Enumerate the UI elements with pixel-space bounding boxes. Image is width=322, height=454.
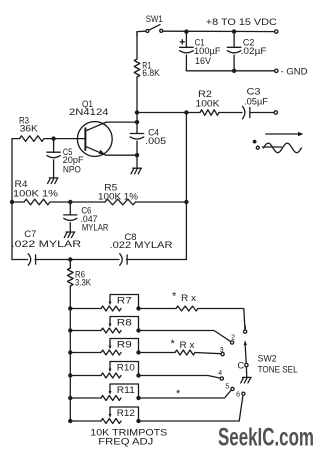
svg-text:2N4124: 2N4124 [69, 106, 109, 117]
terminal: V+ input [275, 30, 278, 33]
svg-text:3: 3 [220, 347, 224, 354]
svg-text:.02µF: .02µF [241, 45, 267, 56]
wire: right trunk (R2 to C8) [185, 113, 187, 260]
svg-text:C7: C7 [24, 228, 36, 239]
resistor R2 100K [186, 88, 242, 115]
trimpot R11 10K [68, 384, 141, 401]
node: R4/R5/C6 [68, 200, 72, 204]
label 10K TRIMPOTS FREQ ADJ [90, 426, 167, 446]
trimpot R12 10K [68, 407, 141, 424]
svg-text:100K 1%: 100K 1% [98, 191, 138, 202]
contact 3 [220, 347, 225, 356]
terminal: output [274, 111, 277, 114]
ground (SW2 common) [241, 367, 251, 383]
wire: row2 to contact 2 [139, 331, 231, 342]
svg-text:*: * [172, 290, 177, 302]
svg-text:TONE SEL: TONE SEL [258, 363, 298, 374]
svg-text:.005: .005 [145, 135, 166, 146]
node: V+ / C2 junction [232, 29, 236, 33]
svg-text:1: 1 [244, 326, 248, 333]
node: emitter/ground [135, 153, 139, 157]
contact 6 [236, 391, 245, 398]
capacitor C8 .022 MYLAR [70, 231, 186, 265]
switch SW2 rotor [237, 340, 248, 370]
switch SW1 [137, 13, 163, 36]
svg-text:R x: R x [181, 292, 196, 303]
watermark SeekIC.com [218, 424, 314, 452]
node: R1-collector-R2 junction [135, 110, 139, 114]
wire: row3 to contact 3 [195, 353, 221, 354]
trimpot R8 10K [68, 317, 141, 334]
resistor Rx (row 3) [139, 338, 196, 355]
svg-text:R x: R x [180, 339, 195, 350]
contact 4 [218, 370, 223, 380]
wire: emitter to ground node [106, 154, 137, 156]
contact 1 [244, 326, 248, 334]
svg-text:.022 MYLAR: .022 MYLAR [110, 239, 173, 250]
resistor R6 3.3K [68, 260, 92, 309]
node: rail / right trunk junction [184, 110, 188, 114]
wire: collector rail to R2 [137, 112, 186, 114]
resistor R5 100K 1% [70, 181, 186, 204]
capacitor C1 [180, 32, 221, 71]
terminal: GND [275, 66, 308, 77]
node: right trunk / R5 [184, 200, 188, 204]
svg-text:5: 5 [225, 383, 229, 390]
transistor Q1 2N4124 [69, 98, 112, 156]
svg-text:6: 6 [236, 391, 240, 398]
svg-text:*: * [171, 338, 176, 350]
svg-text:.022 MYLAR: .022 MYLAR [11, 238, 81, 249]
node: base/C5 [51, 136, 55, 140]
svg-text:R8: R8 [117, 317, 132, 328]
capacitor C4 .005 [130, 122, 166, 155]
asterisk (row 5) [176, 388, 181, 400]
svg-text:2: 2 [231, 335, 235, 342]
capacitor C6 .047 MYLAR [64, 202, 109, 232]
output arrow [266, 132, 304, 137]
svg-text:- GND: - GND [281, 66, 308, 77]
capacitor C7 .022 MYLAR [11, 228, 81, 265]
trimpot R7 10K [68, 295, 141, 312]
svg-text:C: C [237, 359, 244, 370]
svg-text:FREQ ADJ: FREQ ADJ [98, 435, 153, 446]
wire: ladder trunk [69, 309, 71, 422]
trimpot R9 10K [68, 339, 141, 356]
svg-text:100K 1%: 100K 1% [13, 188, 58, 199]
wire: V+ rail [163, 30, 276, 32]
svg-text:+8 TO 15 VDC: +8 TO 15 VDC [206, 16, 277, 27]
wire: row1 to contact 1 [198, 309, 245, 330]
svg-text:R12: R12 [117, 407, 135, 418]
svg-text:36K: 36K [20, 123, 39, 134]
svg-text:SW2: SW2 [258, 353, 277, 364]
ground (emitter) [131, 155, 141, 174]
svg-text:R7: R7 [117, 295, 132, 306]
capacitor C2 [227, 32, 267, 71]
label +8 TO 15 VDC [206, 16, 277, 27]
svg-text:3.3K: 3.3K [75, 277, 92, 288]
node: gnd rail / C2 [232, 69, 236, 73]
svg-text:16V: 16V [195, 55, 212, 66]
node: collector/C4 [135, 120, 139, 124]
capacitor C3 .05uF [242, 85, 274, 118]
svg-text:R11: R11 [117, 384, 135, 395]
svg-text:MYLAR: MYLAR [82, 221, 109, 232]
svg-text:4: 4 [218, 370, 222, 377]
svg-text:NPO: NPO [63, 164, 81, 175]
resistor Rx (row 1) [139, 290, 199, 311]
trimpot R10 10K [68, 362, 141, 379]
node: C7/C8/R6 [68, 257, 72, 261]
contact 5 [225, 383, 234, 390]
capacitor C5 20pF NPO [47, 139, 84, 178]
wire: row5 to contact 5 [139, 390, 232, 398]
svg-text:SW1: SW1 [146, 13, 163, 24]
resistor R3 36K [12, 115, 54, 142]
label SW2 TONE SEL [258, 353, 298, 375]
svg-text:100µF: 100µF [194, 45, 221, 56]
wire: left trunk (R3 to C7) [11, 139, 13, 260]
svg-text:SeekIC.com: SeekIC.com [218, 424, 314, 452]
svg-text:R10: R10 [117, 362, 135, 373]
resistor R1 6.8K [134, 32, 160, 113]
ground (C6) [64, 232, 74, 238]
contact 2 [231, 335, 236, 345]
svg-text:6.8K: 6.8K [142, 67, 160, 78]
svg-text:.05µF: .05µF [244, 96, 268, 107]
resistor R4 100K 1% [10, 178, 71, 205]
output waveform symbol [253, 140, 302, 153]
svg-text:100K: 100K [196, 97, 221, 108]
wire: base lead [54, 138, 86, 140]
ground (C5) [48, 178, 58, 184]
wire: ground rail [186, 70, 275, 72]
wire: row4 to contact 4 [139, 376, 221, 379]
wire: row6 to contact 6 [139, 396, 243, 421]
svg-text:R9: R9 [117, 339, 132, 350]
wire: collector to C4 node [106, 121, 137, 123]
node: V+ / C1 junction [184, 29, 188, 33]
